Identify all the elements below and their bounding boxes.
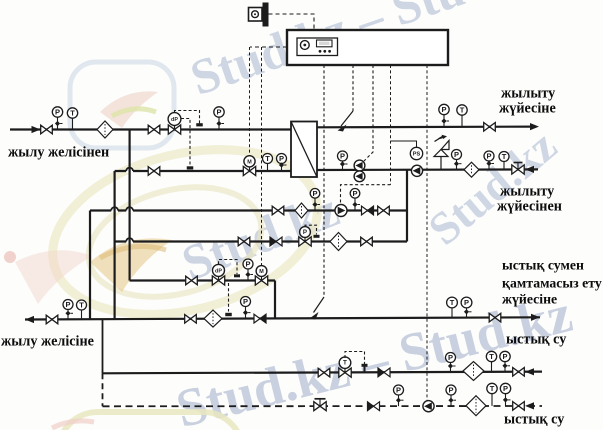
controller line to return sensor <box>323 65 325 297</box>
pressure gauge P (line3 after pump) <box>350 189 360 211</box>
valve: supply inlet <box>41 125 53 134</box>
svg-text:T: T <box>79 301 84 310</box>
flow arrow from heating system <box>525 166 534 173</box>
svg-text:жылыту: жылыту <box>501 86 555 102</box>
flow arrow cold water <box>525 402 534 409</box>
pressure gauge P (DHW supply) <box>241 297 251 319</box>
strainer (heating return) <box>464 162 479 177</box>
svg-text:P: P <box>464 298 469 307</box>
pressure gauge P (network return) <box>63 300 73 320</box>
pressure gauge P (after safety valve) <box>452 150 462 170</box>
svg-text:P: P <box>312 189 317 198</box>
signal line outdoor sensor to controller <box>269 14 315 30</box>
valve: circulation inlet <box>318 368 330 377</box>
valve: hot water supply outlet <box>489 313 501 322</box>
flow arrow supply in <box>32 126 41 133</box>
svg-text:жүйесіне: жүйесіне <box>502 292 557 307</box>
strainer (DHW supply) <box>204 310 222 327</box>
thermometer T (heating supply) <box>457 105 467 127</box>
pipe: heating supply from HX (right, y=127) <box>317 125 536 128</box>
flow arrow to hot water system <box>531 314 540 321</box>
svg-text:жылу желісінен: жылу желісінен <box>8 145 109 161</box>
valve: cold water outlet <box>513 402 525 411</box>
pipe: make-up line 3 (y=210.5) <box>90 209 407 211</box>
capillary line temperature regulator <box>345 352 365 365</box>
riser at x=102.5 (return main down to circulation) <box>102 319 104 373</box>
pipe crossing jump x=129.6/y=241.5 <box>126 238 133 243</box>
thermometer T (circulation end) <box>486 351 496 372</box>
pressure gauge P (circulation end) <box>500 351 510 372</box>
check valve (DHW supply) <box>254 314 266 323</box>
thermometer T (hot water supply) <box>447 297 458 318</box>
strainer (supply) <box>97 121 113 138</box>
svg-text:P: P <box>245 260 250 269</box>
pipe crossing jump x=114.6/y=210.5 <box>111 207 118 212</box>
controller unit with display <box>297 38 338 56</box>
strainer (circulation) <box>463 362 484 381</box>
svg-text:P: P <box>243 297 248 306</box>
watermark text chain bottom <box>170 282 578 430</box>
check valve (circulation) <box>378 368 390 377</box>
svg-text:ыстық сумен: ыстық сумен <box>502 258 584 273</box>
svg-text:T: T <box>450 298 455 307</box>
svg-text:жылыту: жылыту <box>500 184 554 200</box>
svg-text:ыстық су: ыстық су <box>506 332 566 348</box>
svg-text:P: P <box>448 353 453 362</box>
pressure tap on supply pipe <box>196 123 203 126</box>
impulse line dP to return pipe tap <box>181 119 190 167</box>
thermometer T (heating return inlet) <box>499 152 509 170</box>
twin circulation pumps <box>354 160 365 182</box>
svg-text:T: T <box>489 352 494 361</box>
svg-text:dP: dP <box>215 268 222 274</box>
pressure tap (DHW branch) <box>234 274 240 277</box>
dP regulator valve <box>168 113 181 135</box>
thermometer T (cold water end) <box>487 383 497 406</box>
riser at x=90 (line3 down to return main) <box>89 211 91 320</box>
top-left small logo <box>70 62 174 148</box>
pressure gauge P (before pumps) <box>338 151 348 170</box>
svg-text:dP: dP <box>171 117 178 123</box>
control line to cold water pump <box>426 65 428 401</box>
riser at x=102.5 dashed (circulation down to cold main) <box>102 373 104 406</box>
valve: primary return <box>148 167 160 176</box>
control line to twin pumps <box>364 65 373 161</box>
svg-text:қамтамасыз ету: қамтамасыз ету <box>502 276 602 291</box>
svg-text:ыстық су: ыстық су <box>504 412 564 428</box>
svg-text:T: T <box>502 152 507 161</box>
pipe: heat network return / DHW supply (y=318.5) <box>25 317 540 319</box>
svg-text:P: P <box>502 352 507 361</box>
svg-text:P: P <box>216 108 221 117</box>
temperature sensor pocket <box>362 364 368 373</box>
svg-text:T: T <box>70 109 75 118</box>
svg-text:P: P <box>55 108 60 117</box>
svg-text:P: P <box>65 300 70 309</box>
valve: heating supply outlet <box>484 123 496 132</box>
pressure gauge P (cold water end) <box>500 383 510 406</box>
pressure gauge P (after cw pump) <box>446 385 456 406</box>
watermark text chain top <box>183 0 557 107</box>
valve: circulation outlet <box>513 368 525 377</box>
hand valve with T-handle (cold water) <box>314 399 326 411</box>
pressure gauge P (line3 before pump) <box>310 189 320 211</box>
controller line to supply sensor <box>352 65 354 111</box>
pipe: heat network supply (left, y=129) <box>10 128 291 130</box>
pressure gauge P (DHW branch) <box>243 259 253 281</box>
pressure gauge P (heating return inlet) <box>484 151 494 170</box>
pressure gauge P (circulation) <box>446 353 456 373</box>
valve: line3 outlet <box>378 206 390 215</box>
valve: line4 outlet <box>361 237 373 246</box>
valve: before DHW strainer <box>185 315 197 324</box>
riser at x=114.6 (primary return down to return main) <box>113 171 115 319</box>
pipe: cold water main (dashed, y=406) <box>103 405 543 407</box>
pipe: DHW circulation (y=372.5) <box>103 372 543 374</box>
svg-text:P: P <box>441 105 446 114</box>
watermark text chain mid left <box>174 180 347 292</box>
svg-text:T: T <box>265 154 270 163</box>
riser at x=407 (heating return down to make-up lines) <box>406 170 408 242</box>
control line to M valve <box>249 47 251 156</box>
return sensor arrowhead <box>310 312 319 320</box>
safety relief valve <box>434 135 449 170</box>
pressure gauge P (heating supply) <box>439 104 449 127</box>
motor control valve M (DHW) <box>255 266 267 286</box>
outdoor temperature sensor <box>249 3 269 27</box>
valve: before dP regulator <box>148 125 160 134</box>
pipe: heating return into HX (y=170) <box>317 168 538 171</box>
pressure switch PS <box>410 147 422 159</box>
motor control valve M (primary return) <box>243 156 255 176</box>
thermometer T (supply inlet) <box>67 108 77 130</box>
svg-text:P: P <box>454 150 459 159</box>
strainer (line4) <box>330 233 347 251</box>
svg-text:M: M <box>247 159 252 165</box>
return temperature sensor lead <box>314 297 325 313</box>
valve: line3 inlet <box>272 206 284 215</box>
svg-text:T: T <box>460 106 465 115</box>
svg-text:P: P <box>340 152 345 161</box>
svg-text:P: P <box>352 189 357 198</box>
svg-text:P: P <box>448 386 453 395</box>
pipe crossing jump x=129.6/y=210.5 <box>126 207 133 212</box>
flow arrow to heat network <box>25 316 34 323</box>
hand valve with T-handle (heating return) <box>512 163 524 175</box>
svg-text:M: M <box>259 269 264 275</box>
thermometer T (primary return) <box>263 154 273 172</box>
svg-text:P: P <box>303 229 307 236</box>
temperature regulator valve (circulation) <box>339 357 351 377</box>
svg-text:P: P <box>503 384 508 393</box>
big mid-left logo <box>35 124 335 341</box>
bottom-left logo top arc <box>58 412 243 430</box>
strainer (cold water) <box>466 396 486 416</box>
strainer (line3) <box>295 203 308 218</box>
impulse line DHW dP regulator <box>219 260 238 275</box>
svg-text:P: P <box>486 152 491 161</box>
pressure tap (line4) <box>314 235 320 238</box>
pipe crossing jump x=129.6/y=171 <box>126 168 133 173</box>
pressure regulator valve (line4) <box>299 227 311 247</box>
check valve (line4) <box>270 237 282 246</box>
pressure tap on DHW main <box>225 313 232 316</box>
pressure tap on primary return <box>187 166 194 169</box>
check valve (line3) <box>362 206 374 215</box>
watermark text chain right middle <box>418 119 567 256</box>
pipe: primary return HX to riser (y=171) <box>115 170 291 172</box>
control line to DHW M valve <box>261 47 263 265</box>
pressure gauge P (hot water supply) <box>461 297 472 318</box>
signal line controller to left trunk <box>250 46 287 48</box>
svg-text:P: P <box>396 386 401 395</box>
signal line PS to controller trunk <box>391 141 417 147</box>
impulse line pressure regulator <box>305 225 317 234</box>
svg-text:жүйесінен: жүйесінен <box>497 199 562 215</box>
pipe: cold water to DHW regulator (y=280.5) <box>130 279 275 281</box>
control trunk x=390.5 to pump elbow <box>390 65 392 185</box>
heat exchanger <box>291 122 317 178</box>
dP regulator valve (DHW) <box>212 264 224 285</box>
check valve (cold water) <box>368 402 380 411</box>
valve: DHW cold inlet <box>186 276 198 285</box>
svg-text:жылу желісіне: жылу желісіне <box>1 334 94 350</box>
controller cabinet <box>287 30 448 65</box>
control elbow to make-up pump <box>341 185 391 204</box>
pressure gauge P (after dP regulator) <box>214 107 224 130</box>
svg-text:T: T <box>490 384 495 393</box>
pressure gauge P (primary return) <box>277 154 287 172</box>
valve: line4 inlet <box>238 237 250 246</box>
supply temperature sensor lead <box>341 111 353 126</box>
impulse line DHW dP to main tap <box>228 283 230 312</box>
pipe: make-up line 4 (y=241.5) <box>115 240 407 242</box>
pressure gauge P (cold water) <box>394 385 404 406</box>
svg-text:жүйесіне: жүйесіне <box>499 101 556 117</box>
svg-text:PS: PS <box>413 152 421 158</box>
riser at x=275 (DHW regulator outlet down to main) <box>274 281 276 320</box>
thermometer T (network return) <box>77 300 87 319</box>
flow arrow circulation return <box>525 368 534 375</box>
flow arrow to heating system <box>530 123 539 130</box>
pressure gauge P (supply inlet) <box>52 107 62 130</box>
make-up pump <box>335 205 347 217</box>
valve: network return outlet <box>46 315 58 324</box>
riser at x=129.6 (supply tee down to cold water line) <box>129 130 131 281</box>
impulse line dP to downstream tap <box>175 111 200 124</box>
svg-text:T: T <box>343 360 347 367</box>
cold water pump <box>423 401 434 412</box>
supply sensor arrowhead <box>338 125 347 132</box>
recirculation pump <box>411 165 422 176</box>
svg-text:P: P <box>279 154 284 163</box>
